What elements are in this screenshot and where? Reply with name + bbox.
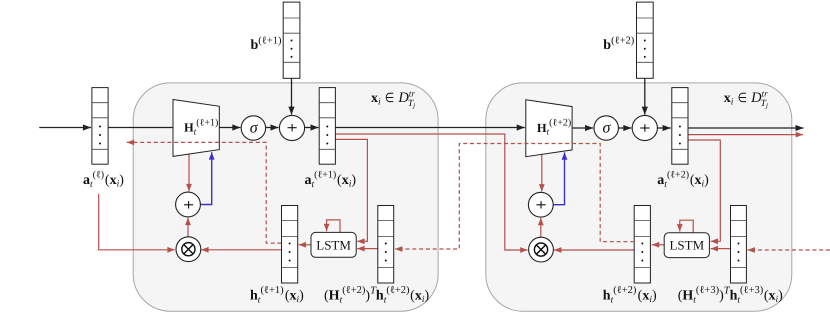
wire b2 down into plus2	[644, 78, 646, 114]
block box layer l+2	[486, 83, 792, 311]
wire trapezoid H1 to sigma1	[219, 127, 240, 129]
vector HTh2 input	[378, 206, 394, 284]
wire plus1 to a_t^(l+1)	[305, 127, 319, 129]
svg-text:σ: σ	[603, 120, 612, 137]
svg-text:at(ℓ)(xi): at(ℓ)(xi)	[83, 170, 124, 190]
wire red a_t^(l+2) down into LSTM2 right	[688, 140, 721, 241]
wire red a_t^(l+2) output exits right	[688, 134, 804, 136]
wire sigma2 to plus2	[618, 127, 631, 129]
wire sigma1 to plus1	[266, 127, 279, 129]
vector h_t^(l+2)	[634, 206, 650, 284]
svg-text:b(ℓ+2): b(ℓ+2)	[603, 36, 634, 54]
wire red LSTM2 self loop	[680, 220, 693, 233]
wire trapezoid H2 to sigma2	[572, 127, 593, 129]
wire red trapezoid H2 down to plus2b	[541, 154, 543, 191]
wire red vector HTh2 to LSTM1 right	[357, 248, 378, 250]
wire blue plus1b feedback up to trapezoid H1	[200, 152, 211, 204]
LSTM1 box	[311, 232, 356, 257]
svg-text:LSTM: LSTM	[669, 238, 704, 253]
wire blue plus2b feedback up to trapezoid H2	[553, 152, 564, 204]
trapezoid H2	[526, 100, 572, 157]
svg-text:σ: σ	[250, 119, 259, 136]
plus1b node	[176, 192, 201, 217]
vector b2	[637, 2, 654, 78]
trapezoid H1	[173, 100, 219, 157]
wire red trapezoid H1 down to plus1b	[188, 154, 190, 191]
wire red otimes2 up to plus2b	[540, 218, 542, 238]
sigma2 node	[594, 116, 618, 140]
wire dashed backward h_t^(l+2) to vector HTh2	[395, 144, 634, 250]
LSTM2 box	[664, 233, 709, 258]
wire red a_t^(l+1) to otimes2	[335, 134, 527, 250]
wire a_t^(l+1) to trapezoid H2	[335, 127, 524, 129]
wire input arrow into a_t^(l)	[39, 127, 91, 129]
vector b1	[283, 2, 300, 78]
plus2 node	[632, 115, 657, 140]
plus2b node	[528, 192, 553, 217]
wire red LSTM2 to h_t^(l+2) vector	[652, 244, 664, 246]
wire b1 down into plus1	[291, 78, 293, 114]
sigma1 node	[241, 116, 265, 140]
plus1 node	[279, 115, 304, 140]
vector a_t^(l)	[92, 88, 108, 165]
otimes1 node	[176, 237, 201, 262]
wire red otimes1 up to plus1b	[187, 218, 189, 238]
svg-text:LSTM: LSTM	[316, 237, 351, 252]
wire red h_t^(l+1) vector to otimes1	[201, 249, 281, 251]
otimes2 node	[529, 237, 554, 262]
vector a_t^(l+1)	[319, 88, 335, 165]
wire dashed backward h_t^(l+1) to a_t^(l)	[127, 142, 282, 243]
block box layer l+1	[133, 83, 438, 311]
wire red vector HTh3 to LSTM2 right	[711, 248, 731, 250]
wire red LSTM1 to h_t^(l+1) vector	[299, 244, 311, 246]
wire plus2 to a_t^(l+2)	[657, 127, 670, 129]
wire a_t^(l) to trapezoid H1	[108, 127, 174, 129]
wire red a_t^(l+1) down into LSTM1 right	[335, 139, 367, 241]
wire a_t^(l+2) output to right edge	[688, 127, 804, 129]
wire red h_t^(l+2) vector to otimes2	[554, 249, 634, 251]
vector a_t^(l+2)	[672, 88, 688, 165]
vector HTh3 input	[731, 206, 747, 284]
wire red a_t^(l) label down to otimes1	[99, 194, 175, 250]
wire red LSTM1 self loop	[327, 220, 340, 233]
svg-text:b(ℓ+1): b(ℓ+1)	[251, 36, 282, 54]
wire dashed backward from right edge into vector HTh3	[748, 249, 830, 251]
vector h_t^(l+1)	[282, 206, 298, 284]
